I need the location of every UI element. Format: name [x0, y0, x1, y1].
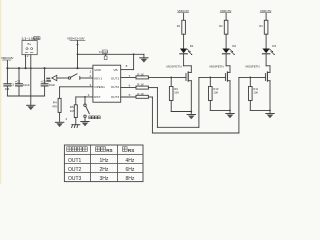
battery B1 label: [22, 37, 41, 41]
svg-text:8Hz: 8Hz: [126, 176, 135, 182]
node VDD=3V (cell 1): [177, 9, 189, 13]
svg-text:OUT3: OUT3: [111, 95, 120, 99]
wire VB vertical to pin 8: [133, 54, 135, 69]
svg-text:OUT2: OUT2: [111, 85, 120, 89]
svg-text:VDD=3V: VDD=3V: [260, 9, 272, 13]
ground (VB net): [140, 54, 148, 62]
svg-text:R 1K: R 1K: [137, 72, 144, 76]
ground (chassis, R5): [72, 125, 80, 128]
resistor R4 47K: [52, 98, 61, 121]
table header 不接RS: [96, 147, 101, 152]
svg-text:VDD=3.3V: VDD=3.3V: [1, 56, 14, 60]
decorative left edge stripe: [0, 0, 1, 184]
svg-text:MOSFETN: MOSFETN: [246, 65, 260, 69]
svg-text:R1: R1: [177, 24, 181, 28]
svg-text:B+: B+: [28, 42, 32, 46]
svg-text:OUT1: OUT1: [111, 76, 120, 80]
capacitor C3: [40, 68, 55, 96]
resistor R8 (OUT3 series): [121, 92, 153, 98]
resistor R10 (gate pulldown): [209, 77, 211, 79]
svg-text:VDD=3V: VDD=3V: [220, 9, 232, 13]
svg-text:4Hz: 4Hz: [126, 158, 135, 164]
LED D2: [222, 49, 229, 54]
pin 8 stub: [121, 69, 134, 71]
wire pin4 RST net: [76, 96, 93, 105]
node VDD label left: [1, 56, 14, 60]
ground (S2): [81, 122, 89, 127]
wire resistor to LED D3: [265, 34, 267, 48]
node KEY arrow: [46, 75, 68, 81]
svg-text:D3: D3: [272, 44, 276, 48]
wire battery plus down to rail: [25, 55, 27, 68]
transistor Q2: [225, 72, 230, 81]
svg-text:R 1K: R 1K: [137, 92, 144, 96]
wire VDD to resistor R1: [183, 13, 185, 20]
wire LED to drain: [183, 54, 185, 66]
svg-text:MOSFETN: MOSFETN: [167, 65, 182, 69]
svg-text:2Hz: 2Hz: [100, 167, 109, 173]
svg-text:R3: R3: [259, 24, 263, 28]
wire VDD label to rail: [6, 61, 8, 69]
table header 闪灯频率: [67, 147, 72, 152]
wire pin3 OPEN net: [60, 87, 93, 99]
node VDD=3V (cell 3): [260, 9, 272, 13]
wire pulldown bottom to source: [171, 111, 191, 113]
LED driver cells appended below: [167, 9, 277, 120]
LED D3: [262, 49, 269, 54]
svg-text:1 2: 1 2: [25, 54, 29, 58]
op-amp U1 (flasher IC): [88, 64, 131, 102]
svg-text:10K: 10K: [174, 91, 179, 95]
label reset switch: [89, 116, 101, 119]
wire LED to drain: [265, 54, 267, 66]
resistor R6 (OUT1 series): [121, 72, 186, 79]
svg-text:MOSFETN: MOSFETN: [210, 65, 224, 69]
svg-text:RS: RS: [106, 148, 112, 153]
svg-text:OUT1: OUT1: [68, 158, 82, 164]
svg-text:D1: D1: [190, 44, 194, 48]
table: flash frequency settings: [64, 145, 143, 182]
battery B1: [22, 41, 37, 55]
node VDD=3V (cell 2): [220, 9, 232, 13]
resistor R5: [70, 105, 78, 125]
svg-text:OPEN1: OPEN1: [94, 85, 105, 89]
resistor R1: [182, 20, 186, 34]
svg-text:6Hz: 6Hz: [126, 167, 135, 173]
junction node VB: [133, 53, 135, 55]
svg-text:R10: R10: [213, 87, 218, 91]
capacitor C4: [99, 50, 109, 60]
svg-text:47K: 47K: [52, 105, 57, 109]
switch S2 (reset): [84, 97, 90, 121]
transistor Q3: [265, 72, 270, 81]
wire OUT3 routing: [152, 77, 265, 133]
junction dots on rail: [6, 67, 78, 69]
svg-text:R11: R11: [253, 87, 258, 91]
wire pulldown bottom to source: [250, 109, 270, 111]
wire pulldown bottom to source: [210, 109, 230, 111]
wire VDD to resistor R3: [265, 13, 267, 20]
ground (cell 3): [266, 114, 274, 119]
svg-text:KEY1: KEY1: [94, 76, 102, 80]
transistor Q1: [186, 72, 191, 81]
resistor R3: [264, 20, 268, 34]
wire source down: [269, 81, 271, 114]
svg-text:VDD=3V: VDD=3V: [177, 9, 189, 13]
svg-text:R9: R9: [174, 87, 178, 91]
wire VDD to resistor R2: [225, 13, 227, 20]
svg-text:D2: D2: [232, 44, 236, 48]
svg-text:10uF: 10uF: [23, 83, 30, 87]
resistor R11 (gate pulldown): [249, 77, 251, 79]
svg-text:10uF: 10uF: [49, 83, 56, 87]
svg-text:+C3: +C3: [40, 80, 46, 84]
resistor R2: [224, 20, 228, 34]
wire VB net horizontal: [78, 53, 144, 55]
wire resistor to LED D2: [225, 34, 227, 48]
wire bottom rail: [7, 95, 44, 97]
svg-text:OUT3: OUT3: [68, 176, 82, 182]
wire VDD mid vertical: [77, 41, 79, 68]
svg-text:RST: RST: [94, 95, 100, 99]
capacitor C2: [15, 68, 30, 96]
wire source down: [229, 81, 231, 114]
resistor R7 (OUT2 series): [121, 83, 158, 89]
ground (cell 2): [226, 114, 234, 119]
svg-text:R 1K: R 1K: [137, 83, 144, 87]
svg-text:R2: R2: [219, 24, 223, 28]
svg-text:VB: VB: [113, 68, 117, 72]
wire top VDD rail: [7, 67, 93, 69]
svg-text:VDD: VDD: [94, 68, 101, 72]
ground (cell 1): [187, 115, 195, 120]
node VDD=3.3-3.0V label: [67, 36, 85, 40]
svg-text:+C2: +C2: [15, 80, 21, 84]
capacitor C1: [4, 68, 15, 96]
wire battery minus down to bottom rail: [30, 55, 32, 96]
wire LED to drain: [225, 54, 227, 66]
svg-text:1M: 1M: [70, 109, 75, 113]
ground (R4): [55, 117, 67, 127]
resistor R9 (gate pulldown): [170, 77, 172, 79]
ground (battery rail): [27, 96, 35, 110]
svg-text:104: 104: [5, 87, 10, 91]
switch S1 (key): [68, 74, 93, 80]
svg-text:1Hz: 1Hz: [100, 158, 109, 164]
svg-text:OUT2: OUT2: [68, 167, 82, 173]
LED D1: [180, 49, 187, 54]
wire OUT2 routing: [157, 77, 225, 127]
wire source down: [190, 81, 192, 115]
table header 接RS: [123, 147, 128, 152]
svg-text:10K: 10K: [213, 91, 218, 95]
svg-text:RS: RS: [128, 148, 134, 153]
wire resistor to LED D1: [183, 34, 185, 48]
svg-text:3Hz: 3Hz: [100, 176, 109, 182]
svg-text:10K: 10K: [253, 91, 258, 95]
svg-text:VDD=3.3~3.0V: VDD=3.3~3.0V: [67, 36, 85, 40]
